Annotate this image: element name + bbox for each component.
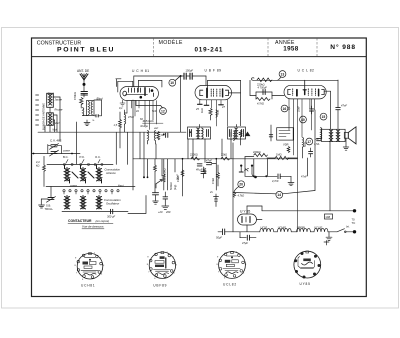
svg-text:Rouge: Rouge [55, 108, 63, 112]
svg-text:10: 10 [170, 81, 174, 85]
svg-text:Vert: Vert [55, 121, 60, 125]
svg-text:UCH81: UCH81 [278, 225, 287, 229]
svg-text:16: 16 [283, 107, 287, 111]
svg-text:Blind: Blind [97, 97, 103, 101]
svg-text:47nF: 47nF [341, 104, 347, 108]
svg-text:25nF: 25nF [297, 106, 301, 112]
svg-text:0,1: 0,1 [119, 106, 123, 110]
svg-text:Oscillateur: Oscillateur [106, 202, 120, 206]
svg-text:Haut: Haut [118, 183, 124, 187]
svg-text:S.B.: S.B. [46, 204, 51, 208]
svg-text:5nF: 5nF [152, 109, 157, 113]
svg-text:019-241: 019-241 [195, 46, 224, 53]
svg-text:UCL82: UCL82 [223, 282, 237, 286]
svg-text:UCL82: UCL82 [314, 225, 323, 229]
svg-text:UBF89: UBF89 [153, 284, 167, 288]
svg-text:47nF: 47nF [206, 159, 212, 163]
svg-text:2,2: 2,2 [36, 160, 40, 164]
svg-text:47nF: 47nF [128, 115, 134, 119]
svg-text:0,1: 0,1 [287, 106, 291, 110]
svg-text:1kΩ: 1kΩ [200, 108, 204, 113]
svg-text:U C L 82: U C L 82 [298, 69, 315, 73]
svg-text:U Y 85: U Y 85 [240, 210, 250, 214]
svg-text:150pF: 150pF [186, 69, 194, 73]
svg-text:casse: casse [63, 150, 70, 153]
svg-text:VDR: VDR [283, 143, 289, 147]
svg-text:47kΩ: 47kΩ [211, 178, 215, 184]
svg-text:TC: TC [352, 221, 356, 225]
svg-text:148: 148 [325, 215, 330, 219]
svg-text:15: 15 [322, 115, 326, 119]
svg-text:20: 20 [239, 183, 243, 187]
svg-text:47µF: 47µF [242, 241, 248, 245]
svg-text:Blind: Blind [48, 92, 54, 96]
svg-text:Antenne: Antenne [105, 171, 116, 175]
svg-text:UCH81: UCH81 [81, 284, 95, 288]
svg-text:1958: 1958 [283, 46, 298, 53]
svg-text:Int.: Int. [346, 225, 350, 229]
svg-text:4,7kΩ: 4,7kΩ [257, 102, 264, 106]
svg-text:vert: vert [154, 127, 158, 130]
svg-text:465 kc/s: 465 kc/s [143, 119, 155, 123]
svg-text:1,5: 1,5 [114, 123, 118, 127]
svg-text:Vue de dessous: Vue de dessous [82, 225, 104, 229]
svg-text:N° 988: N° 988 [330, 43, 356, 51]
svg-text:U C H 81: U C H 81 [132, 69, 150, 73]
svg-text:UC92: UC92 [261, 225, 268, 229]
svg-text:O.C.: O.C. [95, 155, 101, 159]
svg-text:UY85: UY85 [300, 282, 311, 286]
svg-text:200: 200 [165, 210, 171, 214]
svg-text:220kΩ: 220kΩ [253, 150, 261, 154]
svg-text:25: 25 [195, 107, 199, 111]
svg-text:MODÈLE: MODÈLE [159, 39, 183, 46]
svg-text:CONSTRUCTEUR: CONSTRUCTEUR [37, 40, 82, 46]
svg-text:47nF: 47nF [301, 175, 307, 179]
svg-text:U B F 89: U B F 89 [205, 69, 222, 73]
svg-text:14: 14 [277, 193, 281, 197]
svg-text:1MΩ: 1MΩ [276, 152, 282, 156]
svg-text:300 µF: 300 µF [107, 215, 116, 219]
svg-text:POINT BLEU: POINT BLEU [57, 47, 115, 54]
svg-text:25nF: 25nF [176, 174, 180, 180]
svg-text:500kΩ: 500kΩ [169, 182, 173, 190]
svg-text:(log): (log) [173, 185, 177, 190]
svg-text:ANT. DE: ANT. DE [77, 69, 89, 73]
svg-text:4 700pF: 4 700pF [258, 86, 268, 90]
svg-text:48 µF: 48 µF [196, 169, 203, 172]
svg-text:casse: casse [70, 184, 77, 187]
svg-text:Jaune: Jaune [55, 98, 63, 102]
svg-text:12: 12 [161, 109, 165, 113]
svg-text:50µF: 50µF [216, 236, 222, 240]
svg-text:S.M.: S.M. [216, 109, 220, 115]
svg-text:P.O.: P.O. [80, 155, 85, 159]
svg-text:CONTACTEUR: CONTACTEUR [68, 219, 92, 223]
svg-text:+20: +20 [158, 210, 163, 214]
svg-text:C.V. 462: C.V. 462 [50, 138, 62, 142]
svg-text:B.C.: B.C. [63, 155, 69, 159]
svg-text:kΩ: kΩ [36, 164, 39, 168]
svg-text:UBF89: UBF89 [297, 225, 306, 229]
svg-text:40: 40 [301, 118, 305, 122]
svg-text:Rouge: Rouge [141, 125, 149, 128]
svg-text:4,7nF: 4,7nF [272, 179, 279, 183]
svg-text:470kΩ: 470kΩ [73, 92, 77, 100]
svg-text:17: 17 [307, 140, 311, 144]
svg-text:Noir: Noir [52, 128, 57, 132]
svg-text:(en repos): (en repos) [96, 219, 110, 223]
svg-text:4,7kΩ: 4,7kΩ [238, 195, 245, 198]
svg-text:220kΩ: 220kΩ [257, 82, 265, 86]
svg-text:2200Ω: 2200Ω [190, 152, 198, 156]
svg-text:13: 13 [281, 72, 285, 76]
svg-text:TRCLL: TRCLL [45, 207, 54, 211]
